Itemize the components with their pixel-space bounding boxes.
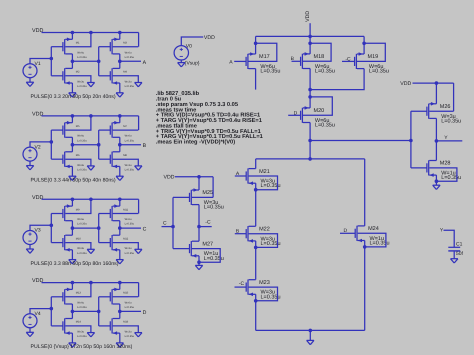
- wire V2 to ground: [29, 161, 31, 166]
- junction gate1 in block 2: [50, 140, 54, 144]
- voltage source V4: [23, 314, 37, 328]
- wire pmos bulk M1: [65, 33, 91, 47]
- wire nmos bulk M10: [65, 243, 91, 250]
- ground nmos bulk M16: [135, 332, 142, 334]
- junction inv2 out block 2: [118, 143, 122, 147]
- wire M25 source col: [198, 177, 200, 190]
- svg-text:L=0.35u: L=0.35u: [77, 335, 87, 338]
- wire gate lead nmos M16: [99, 325, 111, 327]
- svg-text:W=3u: W=3u: [77, 331, 84, 334]
- svg-text:M12: M12: [123, 237, 129, 240]
- nmos M8 block 2: [111, 152, 113, 167]
- junction rail-bulk1 block 3: [89, 198, 93, 202]
- svg-text:M11: M11: [123, 208, 128, 211]
- svg-text:M15: M15: [123, 292, 129, 295]
- svg-text:W=6u: W=6u: [77, 135, 84, 138]
- wire nmos drain col M14: [71, 311, 73, 318]
- ground M28: [433, 184, 440, 186]
- wire pmos drain col M9: [71, 221, 73, 228]
- junction inv2 out block 1: [118, 60, 122, 64]
- junction inv1 out block 3: [71, 226, 75, 230]
- wire M28 bulk loop: [429, 168, 457, 181]
- wire gate column inv2 block 4: [98, 297, 100, 326]
- wire M27 source col: [198, 256, 200, 266]
- svg-text:M24: M24: [368, 226, 379, 232]
- wire gate column inv1 block 1: [50, 47, 52, 76]
- svg-text:W=3u: W=3u: [125, 164, 132, 167]
- wire nmos drain col M6: [71, 145, 73, 152]
- pmos M1 block 1: [64, 39, 66, 54]
- svg-text:C: C: [143, 227, 147, 233]
- ground nmos source M14: [69, 342, 76, 344]
- svg-text:M19: M19: [368, 54, 379, 60]
- wire pmos drain col M3: [119, 54, 121, 61]
- wire nmos src col M4: [119, 83, 121, 93]
- junction bottom rail: [309, 329, 313, 333]
- wire cap to gnd: [453, 251, 455, 259]
- wire pmos bulk M7: [113, 129, 139, 131]
- wire M23 bulk loop: [249, 287, 278, 301]
- junction M19 bulk: [362, 42, 366, 46]
- wire M26 bulk loop: [453, 83, 455, 111]
- junction rail-src1 block 2: [71, 114, 75, 118]
- wire pmos drain col M7: [119, 137, 121, 144]
- wire gate lead nmos M6: [51, 158, 63, 160]
- wire nmos bulk M16: [113, 326, 139, 333]
- wire M21 drain col: [255, 159, 257, 169]
- svg-text:L=0.35u: L=0.35u: [315, 123, 335, 129]
- wire M28 source col: [435, 175, 437, 185]
- svg-text:L=0.35u: L=0.35u: [204, 256, 224, 262]
- svg-text:L=0.35u: L=0.35u: [77, 223, 87, 226]
- wire nmos bulk M8: [113, 159, 139, 166]
- wire VDD rail block 1: [42, 32, 139, 34]
- wire nmos drain col M10: [71, 228, 73, 235]
- ground nmos bulk M4: [135, 82, 142, 84]
- wire M20 drain col: [309, 123, 311, 159]
- ground nmos bulk M12: [135, 248, 142, 250]
- wire M27 gate lead: [173, 248, 190, 250]
- wire gate column inv1 block 2: [50, 130, 52, 159]
- wire gate lead nmos M10: [51, 242, 63, 244]
- svg-text:-C: -C: [239, 281, 245, 287]
- svg-text:W=3u: W=3u: [125, 247, 132, 250]
- wire nmos drain col M4: [119, 61, 121, 68]
- junction gate2 in block 4: [97, 310, 101, 314]
- wire M28 gate lead: [411, 167, 427, 169]
- wire M19 drain col: [310, 69, 364, 90]
- wire gate column M25 M27: [172, 197, 174, 248]
- wire input block 2: [30, 142, 51, 147]
- wire pmos bulk M13: [65, 283, 91, 297]
- wire input block 3: [30, 225, 51, 230]
- wire input block 4: [30, 309, 51, 314]
- wire VDD M26: [413, 82, 454, 84]
- junction -C out: [197, 225, 201, 229]
- svg-text:L=0.35u: L=0.35u: [77, 252, 87, 255]
- svg-text:L=0.35u: L=0.35u: [369, 69, 389, 75]
- svg-text:L=0.35u: L=0.35u: [125, 306, 135, 309]
- wire inv1-inv2 block 3: [72, 227, 98, 229]
- wire pmos src col M1: [71, 33, 73, 40]
- junction VDD rail: [308, 35, 312, 39]
- wire pmos src col M11: [119, 199, 121, 206]
- wire A to M21 gate: [235, 175, 246, 177]
- pmos M9 block 3: [64, 206, 66, 221]
- junction C gate col: [171, 225, 175, 229]
- nmos M27: [190, 241, 192, 256]
- wire pmos bulk M9: [65, 199, 91, 213]
- wire pmos drain col M1: [71, 54, 73, 61]
- wire D to M24 gate: [340, 232, 355, 234]
- svg-text:PULSE(0 3.3 88n 50p 50p 80n 16: PULSE(0 3.3 88n 50p 50p 80n 160ns): [31, 261, 119, 267]
- wire M21 bulk loop: [249, 176, 278, 190]
- ground V2: [26, 165, 33, 167]
- junction stack top: [308, 157, 312, 161]
- svg-text:W=3u: W=3u: [125, 80, 132, 83]
- wire output block 3: [120, 227, 141, 229]
- svg-text:W=6u: W=6u: [125, 135, 132, 138]
- svg-text:VDD: VDD: [164, 175, 175, 181]
- svg-text:M26: M26: [440, 104, 451, 110]
- wire gate lead pmos M11: [99, 213, 111, 215]
- wire Y to cap: [444, 230, 455, 247]
- pmos M13 block 4: [64, 289, 66, 304]
- junction gate1 in block 1: [50, 57, 54, 61]
- svg-text:W=6u: W=6u: [77, 51, 84, 54]
- wire input block 1: [30, 59, 51, 64]
- wire gate lead nmos M2: [51, 75, 63, 77]
- wire nmos bulk M12: [113, 243, 139, 250]
- svg-text:.meas Ein integ -V(VDD)*I(V0): .meas Ein integ -V(VDD)*I(V0): [156, 139, 235, 146]
- wire Y output: [436, 140, 462, 142]
- junction inv1 out block 1: [71, 60, 75, 64]
- junction rail-src2 block 2: [118, 114, 122, 118]
- pmos M15 block 4: [111, 289, 113, 304]
- wire gate lead pmos M15: [99, 296, 111, 298]
- wire nmos bulk M4: [113, 76, 139, 83]
- wire nmos src col M16: [119, 333, 121, 343]
- svg-text:W=3u: W=3u: [125, 331, 132, 334]
- wire nmos src col M2: [71, 83, 73, 93]
- wire gate column inv2 block 1: [98, 47, 100, 76]
- svg-text:PULSE(0 {Vsup} 172n 50p 50p 16: PULSE(0 {Vsup} 172n 50p 50p 160n 320ns): [31, 344, 133, 350]
- wire D to M20 gate: [288, 114, 300, 116]
- svg-text:L=0.35u: L=0.35u: [77, 306, 87, 309]
- wire pmos drain col M15: [119, 304, 121, 311]
- wire pmos src col M5: [71, 116, 73, 123]
- ground V0: [178, 62, 185, 64]
- svg-text:W=6u: W=6u: [125, 218, 132, 221]
- wire M18 bulk loop: [303, 43, 331, 61]
- svg-text:L=0.35u: L=0.35u: [370, 241, 390, 247]
- junction rail-src2 block 1: [118, 31, 122, 35]
- wire -C to M23 gate: [235, 286, 247, 288]
- wire nmos src col M14: [71, 333, 73, 343]
- junction inv2 out block 4: [118, 310, 122, 314]
- svg-text:M28: M28: [440, 161, 451, 167]
- svg-text:M14: M14: [76, 321, 82, 324]
- pmos M18: [301, 54, 303, 69]
- wire M24 drain col: [364, 159, 366, 226]
- junction rail-src2 block 4: [118, 281, 122, 285]
- svg-text:L=0.35u: L=0.35u: [125, 139, 135, 142]
- pmos M7 block 2: [111, 123, 113, 138]
- ground V1: [26, 81, 33, 83]
- wire pmos drain col M13: [71, 304, 73, 311]
- ground M27: [195, 264, 202, 266]
- junction gate1 in block 4: [50, 307, 54, 311]
- svg-text:M18: M18: [314, 54, 325, 60]
- nmos M28: [428, 160, 430, 175]
- svg-text:L=0.35u: L=0.35u: [125, 223, 135, 226]
- svg-text:L=0.35u: L=0.35u: [260, 69, 280, 75]
- wire A to M17 gate: [234, 60, 246, 62]
- wire M26 gate lead: [411, 110, 427, 112]
- svg-text:C: C: [163, 220, 167, 226]
- junction gate1 in block 3: [50, 224, 54, 228]
- svg-text:L=0.35u: L=0.35u: [77, 168, 87, 171]
- ground nmos bulk M2: [87, 82, 94, 84]
- junction inv2 out block 3: [118, 226, 122, 230]
- wire gate column inv2 block 2: [98, 130, 100, 159]
- svg-text:L=0.35u: L=0.35u: [315, 69, 335, 75]
- wire output block 2: [120, 144, 141, 146]
- svg-text:M20: M20: [314, 108, 325, 114]
- wire nmos drain col M12: [119, 228, 121, 235]
- svg-text:V4: V4: [35, 311, 41, 317]
- ground nmos source M16: [116, 342, 123, 344]
- junction M22 bulk-src: [254, 246, 258, 250]
- junction rail-src1 block 4: [71, 281, 75, 285]
- wire inv1-inv2 block 1: [72, 60, 98, 62]
- svg-text:L=0.35u: L=0.35u: [125, 252, 135, 255]
- svg-text:M27: M27: [202, 241, 213, 247]
- wire B to M18 gate: [292, 60, 301, 62]
- wire M20 source col: [309, 90, 311, 108]
- junction rail-src1 block 1: [71, 31, 75, 35]
- wire M24 bulk loop: [358, 233, 386, 247]
- wire VDD rail block 3: [42, 198, 139, 200]
- svg-text:L=0.35u: L=0.35u: [125, 168, 135, 171]
- wire gate lead nmos M14: [51, 325, 63, 327]
- wire pmos bulk M15: [113, 296, 139, 298]
- svg-text:V0: V0: [186, 43, 192, 49]
- ground nmos bulk M8: [135, 165, 142, 167]
- svg-text:M8: M8: [123, 154, 127, 157]
- wire gate column inv1 block 4: [50, 297, 52, 326]
- svg-text:V2: V2: [35, 144, 41, 150]
- svg-text:L=0.35u: L=0.35u: [77, 139, 87, 142]
- wire gate lead pmos M9: [51, 213, 63, 215]
- wire M21 source col: [255, 183, 257, 226]
- wire pmos bulk M3: [113, 46, 139, 48]
- junction inv1 out block 2: [71, 143, 75, 147]
- nmos M22: [247, 226, 249, 241]
- junction M24 bulk-src: [363, 245, 367, 249]
- pmos M17: [247, 54, 249, 69]
- svg-text:L=0.35u: L=0.35u: [441, 175, 461, 181]
- junction gate col input: [409, 139, 413, 143]
- ground nmos source M8: [116, 175, 123, 177]
- wire M19 bulk loop: [357, 43, 385, 61]
- svg-text:L=0.35u: L=0.35u: [125, 335, 135, 338]
- svg-text:M1: M1: [76, 42, 80, 45]
- svg-text:M16: M16: [123, 321, 129, 324]
- wire M26 drain col: [435, 118, 437, 160]
- ground nmos source M4: [116, 92, 123, 94]
- wire M17 bulk loop: [249, 43, 277, 61]
- wire VDD rail block 2: [42, 115, 139, 117]
- svg-text:M21: M21: [259, 169, 270, 175]
- wire M25 drain col: [198, 205, 200, 227]
- wire nmos bulk M6: [65, 159, 91, 166]
- nmos M23: [247, 280, 249, 295]
- ground nmos source M6: [69, 175, 76, 177]
- nmos M14 block 4: [64, 318, 66, 333]
- svg-text:M9: M9: [76, 208, 80, 211]
- pmos M3 block 1: [111, 39, 113, 54]
- svg-text:{Vsup}: {Vsup}: [185, 60, 200, 66]
- svg-text:M23: M23: [259, 280, 270, 286]
- ground nmos source M12: [116, 259, 123, 261]
- pmos M19: [355, 54, 357, 69]
- ground nmos source M10: [69, 259, 76, 261]
- wire M18 drain col: [309, 69, 311, 90]
- wire pmos src col M15: [119, 283, 121, 290]
- wire M17 source col: [255, 36, 257, 54]
- svg-text:M25: M25: [202, 190, 213, 196]
- junction rail-bulk1 block 4: [89, 281, 93, 285]
- svg-text:M4: M4: [123, 71, 127, 74]
- voltage source V0: [174, 46, 188, 60]
- wire nmos drain col M16: [119, 311, 121, 318]
- wire gate lead nmos M8: [99, 158, 111, 160]
- junction M26 src: [435, 81, 439, 85]
- wire B to M22 gate: [235, 233, 246, 235]
- wire pmos bulk M11: [113, 213, 139, 215]
- wire gate column inv1 block 3: [50, 214, 52, 243]
- svg-text:VDD: VDD: [400, 81, 411, 87]
- junction internal node tap: [308, 139, 312, 143]
- wire M26 source col: [435, 83, 437, 104]
- wire nmos drain col M2: [71, 61, 73, 68]
- svg-text:PULSE(0 3.3 20n 50p 50p 20n 40: PULSE(0 3.3 20n 50p 50p 20n 40ns): [31, 94, 116, 100]
- wire gate lead nmos M12: [99, 242, 111, 244]
- nmos M4 block 1: [111, 68, 113, 83]
- junction M21 bulk-src: [254, 188, 258, 192]
- svg-text:L=0.35u: L=0.35u: [125, 85, 135, 88]
- svg-text:VDD: VDD: [305, 11, 311, 22]
- wire nmos src col M10: [71, 250, 73, 260]
- wire nmos src col M6: [71, 166, 73, 176]
- wire C input: [162, 226, 174, 228]
- wire internal node to out inverter: [310, 140, 411, 142]
- wire M25 gate lead: [173, 196, 190, 198]
- wire nmos src col M12: [119, 250, 121, 260]
- junction inv1 out block 4: [71, 310, 75, 314]
- junction M17 bulk: [254, 42, 258, 46]
- wire bottom rail: [256, 329, 365, 331]
- wire pmos drain col M5: [71, 137, 73, 144]
- wire V4 to ground: [29, 328, 31, 333]
- ground nmos bulk M6: [87, 165, 94, 167]
- wire nmos bulk M14: [65, 326, 91, 333]
- junction rail-src1 block 3: [71, 198, 75, 202]
- wire nmos bulk M2: [65, 76, 91, 83]
- wire gate lead nmos M4: [99, 75, 111, 77]
- ground stack: [307, 339, 314, 341]
- wire M17 drain col: [255, 69, 257, 90]
- nmos M2 block 1: [64, 68, 66, 83]
- wire -C output: [199, 226, 212, 228]
- nmos M16 block 4: [111, 318, 113, 333]
- junction gate2 in block 3: [97, 226, 101, 230]
- svg-text:50f: 50f: [456, 251, 464, 257]
- ground V4: [26, 331, 33, 333]
- svg-text:L=0.35u: L=0.35u: [77, 85, 87, 88]
- wire gate lead pmos M3: [99, 46, 111, 48]
- wire pmos src col M7: [119, 116, 121, 123]
- wire VDD rail block 4: [42, 282, 139, 284]
- wire pmos bulk M5: [65, 116, 91, 130]
- wire M22 bulk loop: [249, 234, 278, 248]
- wire gate column inv2 block 3: [98, 214, 100, 243]
- svg-text:D: D: [143, 310, 147, 316]
- wire M23 source col: [255, 294, 257, 330]
- voltage source V1: [23, 64, 37, 78]
- junction M27 bulk-src: [197, 260, 201, 264]
- junction M20 source node: [308, 88, 312, 92]
- junction gate2 in block 1: [97, 60, 101, 64]
- svg-text:M3: M3: [123, 42, 127, 45]
- junction M28 bulk-src: [435, 179, 439, 183]
- wire M25 bulk loop: [192, 196, 213, 198]
- voltage source V2: [23, 147, 37, 161]
- svg-text:W=3u: W=3u: [77, 80, 84, 83]
- wire pmos drain col M11: [119, 221, 121, 228]
- junction M18 bulk: [308, 42, 312, 46]
- wire M18 source col: [309, 36, 311, 54]
- junction M23 bulk-src: [254, 299, 258, 303]
- capacitor C1: [448, 246, 460, 248]
- wire gate lead pmos M13: [51, 296, 63, 298]
- svg-text:L=0.35u: L=0.35u: [125, 56, 135, 59]
- svg-text:C1: C1: [456, 241, 463, 247]
- ground V3: [26, 248, 33, 250]
- wire output block 1: [120, 60, 141, 62]
- svg-text:W=6u: W=6u: [77, 218, 84, 221]
- wire M19 source col: [363, 36, 365, 54]
- wire -C to M19 gate: [342, 60, 355, 62]
- svg-text:W=3u: W=3u: [77, 164, 84, 167]
- svg-text:M22: M22: [259, 227, 270, 233]
- wire M20 bulk loop: [303, 97, 332, 115]
- pmos M5 block 2: [64, 123, 66, 138]
- wire gate lead pmos M7: [99, 129, 111, 131]
- svg-text:PULSE(0 3.3 44n 50p 50p 40n 80: PULSE(0 3.3 44n 50p 50p 40n 80ns): [31, 177, 116, 183]
- junction Y node: [435, 139, 439, 143]
- svg-text:-C: -C: [205, 219, 211, 225]
- svg-text:M10: M10: [76, 237, 82, 240]
- junction M25 src: [197, 175, 201, 179]
- nmos M21: [247, 168, 249, 183]
- junction gate2 in block 2: [97, 143, 101, 147]
- wire pmos src col M13: [71, 283, 73, 290]
- ground nmos bulk M10: [87, 248, 94, 250]
- wire stack top row: [256, 158, 365, 160]
- nmos M12 block 3: [111, 235, 113, 250]
